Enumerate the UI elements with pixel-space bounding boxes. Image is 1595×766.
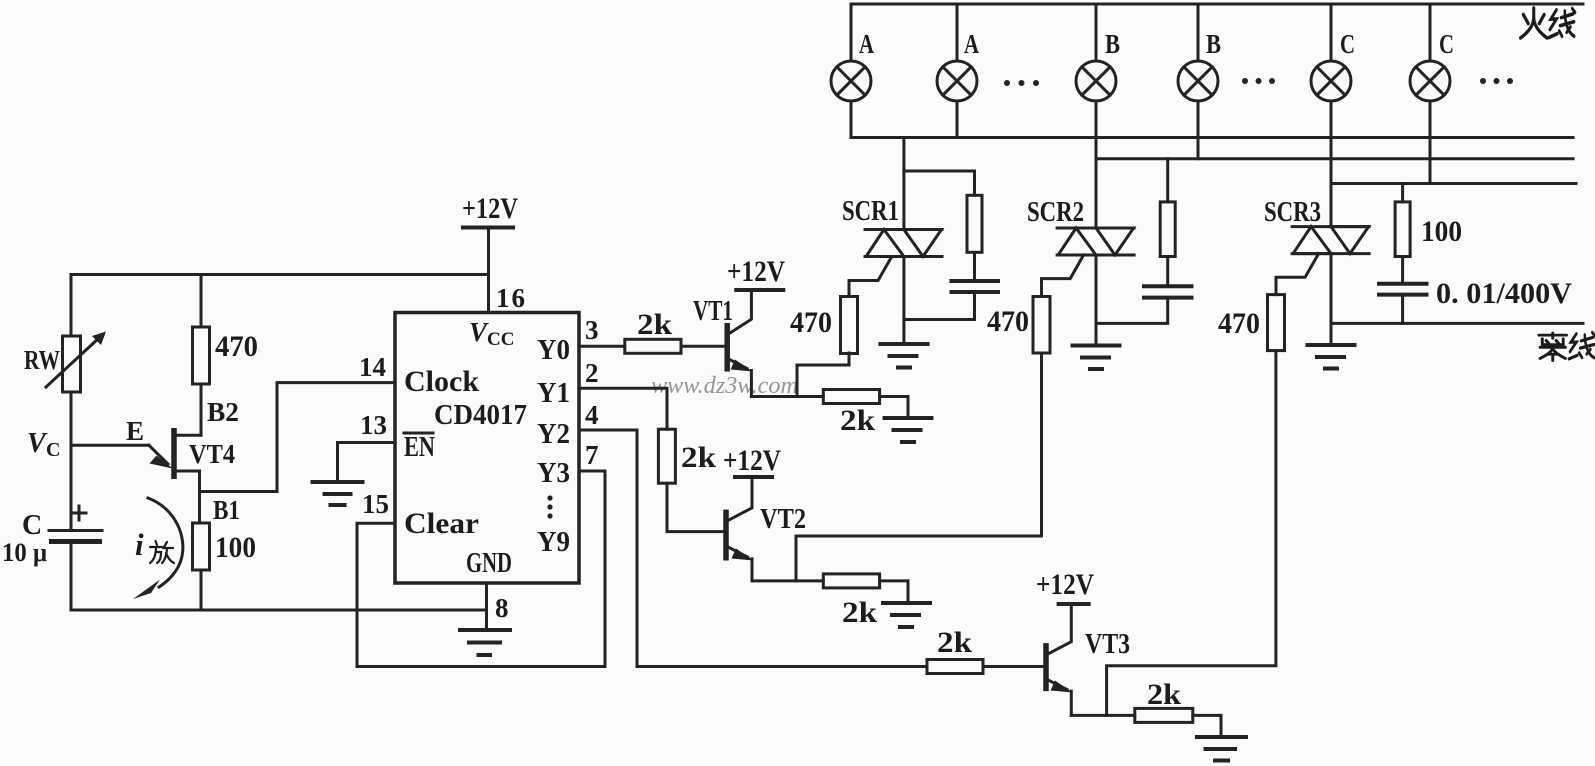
lamp B1: [1076, 4, 1116, 159]
resistor 100 (B1): [193, 523, 210, 610]
triac SCR1: [865, 230, 942, 257]
capacitor snubber1: [952, 281, 999, 292]
svg-text:2: 2: [585, 358, 599, 388]
wire neutral line: [1331, 322, 1583, 325]
svg-text:2k: 2k: [937, 626, 972, 659]
svg-text:Y9: Y9: [537, 526, 570, 558]
svg-text:GND: GND: [466, 547, 512, 579]
svg-text:Y0: Y0: [537, 334, 570, 366]
wire gate SCR3: [1276, 254, 1319, 295]
lamp C2: [1410, 4, 1450, 184]
resistor 470 (B2): [193, 275, 210, 436]
wire bus B: [1096, 157, 1573, 160]
rheostat RW: [46, 332, 106, 393]
svg-text:100: 100: [1421, 215, 1462, 248]
wire snubber2 branch: [1166, 159, 1169, 202]
ground VT3 emitter: [1197, 737, 1246, 761]
svg-text:470: 470: [987, 305, 1029, 338]
lamp A2: [937, 4, 977, 138]
svg-text:14: 14: [359, 352, 386, 382]
wire B1 node down: [198, 471, 201, 523]
wire snubber3 to neutral: [1401, 297, 1404, 324]
svg-text:SCR1: SCR1: [842, 195, 899, 227]
svg-text:V: V: [469, 317, 489, 347]
ground SCR2: [1073, 346, 1120, 370]
resistor snubber1: [967, 195, 982, 252]
power +12V VT1: [727, 255, 785, 290]
dots between Y3 and Y9: [547, 495, 552, 518]
transistor VT4 (UJT): [149, 428, 201, 479]
transistor VT1: [727, 292, 752, 397]
wire VT2 emitter: [752, 579, 823, 582]
power +12V VT3: [1036, 568, 1094, 604]
label lingxian (neutral): [1539, 333, 1595, 361]
ground VT1 emitter: [885, 418, 932, 442]
svg-text:15: 15: [362, 489, 389, 519]
ground VT2 emitter: [883, 603, 930, 627]
resistor 470 (SCR3 gate): [1268, 295, 1285, 351]
svg-text:470: 470: [790, 306, 832, 339]
svg-text:Y3: Y3: [537, 457, 570, 489]
svg-text:VT2: VT2: [760, 504, 806, 535]
svg-text:E: E: [126, 416, 144, 446]
svg-text:V: V: [27, 428, 48, 459]
svg-text:2k: 2k: [1147, 678, 1181, 711]
wire SCR3 cathode: [1330, 254, 1333, 343]
dots lamps B: [1242, 78, 1275, 84]
wire B1 tap to clock: [200, 383, 396, 492]
node VC emitter wire: [71, 444, 149, 447]
svg-text:VT1: VT1: [693, 296, 733, 327]
capacitor snubber3: [1379, 284, 1427, 295]
svg-text:B1: B1: [213, 495, 240, 525]
dots lamps C: [1480, 78, 1513, 84]
wire SCR2 anode: [1095, 159, 1098, 228]
wire bottom rail: [71, 609, 487, 612]
svg-text:Clear: Clear: [404, 507, 479, 540]
wire SCR3 anode: [1330, 184, 1333, 227]
wire pin8 GND: [485, 583, 488, 629]
wire bus C: [1331, 182, 1576, 185]
resistor 2k (VT2 emitter): [823, 574, 908, 601]
resistor snubber3 100: [1395, 202, 1410, 257]
wire: [973, 252, 976, 279]
resistor 470 (SCR2 gate): [1033, 297, 1050, 354]
svg-text:B: B: [1105, 29, 1120, 59]
svg-text:3: 3: [585, 315, 599, 345]
fang glyph: [150, 541, 174, 563]
resistor 2k (VT2 base): [658, 429, 675, 483]
svg-text:RW: RW: [24, 345, 60, 375]
transistor VT2: [726, 479, 754, 581]
svg-text:Y1: Y1: [537, 377, 570, 409]
svg-text:8: 8: [495, 593, 509, 623]
ling: [1539, 333, 1567, 361]
wire: [1401, 257, 1404, 282]
svg-text:SCR3: SCR3: [1264, 196, 1321, 228]
triac SCR2: [1057, 228, 1134, 255]
wire snubber1 to cathode: [904, 294, 975, 320]
svg-text:C: C: [22, 510, 42, 541]
svg-text:16: 16: [496, 283, 525, 313]
wire SCR1 anode: [902, 138, 905, 230]
ground SCR3: [1308, 345, 1355, 369]
dots lamps A: [1004, 80, 1039, 86]
wire snubber2 to cathode: [1096, 300, 1168, 324]
wire gate SCR2: [1042, 255, 1084, 297]
svg-text:B2: B2: [207, 397, 239, 427]
lamp B2: [1178, 4, 1218, 159]
svg-text:0. 01/400V: 0. 01/400V: [1436, 277, 1572, 310]
resistor 2k (VT3 base): [927, 660, 983, 674]
resistor 470 (SCR1 gate): [841, 297, 858, 354]
triac SCR3: [1292, 227, 1369, 254]
wire VT3 emitter: [1071, 714, 1135, 717]
wire to VT3 base: [983, 665, 1044, 668]
wire pin7 Y3 to Clear loop: [357, 471, 605, 667]
wire snubber1 branch: [904, 171, 975, 195]
xian: [1569, 333, 1595, 359]
label huoxian (live wire): [1521, 8, 1575, 38]
svg-text:13: 13: [360, 410, 387, 440]
huo: [1521, 8, 1547, 38]
svg-text:CD4017: CD4017: [434, 399, 527, 431]
svg-text:2k: 2k: [840, 404, 875, 437]
label i fang (discharge current) with arc arrow: [133, 498, 183, 599]
wire emitter node to SCR3 470: [1107, 351, 1276, 716]
wire to VT2 base: [667, 483, 724, 531]
svg-text:+12V: +12V: [462, 192, 518, 225]
ground SCR1: [881, 344, 928, 368]
svg-text:A: A: [964, 29, 979, 59]
svg-text:B: B: [1206, 29, 1221, 59]
svg-text:470: 470: [1218, 307, 1260, 340]
wire VT1 emitter: [751, 395, 823, 398]
svg-text:2k: 2k: [637, 308, 672, 341]
svg-text:C: C: [1439, 29, 1454, 59]
wire left vertical top: [70, 275, 73, 337]
wire SCR1 cathode: [902, 257, 905, 343]
svg-text:C: C: [1340, 29, 1355, 59]
wire emitter node up to 470: [797, 353, 849, 397]
svg-text:2k: 2k: [681, 441, 716, 474]
lamp C1: [1311, 4, 1351, 184]
svg-text:+12V: +12V: [1036, 568, 1094, 601]
transistor VT3: [1046, 606, 1073, 715]
svg-text:470: 470: [215, 330, 258, 363]
label EN: [404, 431, 435, 463]
power +12V VT2: [723, 444, 781, 477]
wire pin15 Clear: [357, 523, 395, 666]
svg-text:Clock: Clock: [404, 365, 479, 398]
wire pin13 EN: [338, 443, 396, 481]
xian: [1549, 9, 1575, 38]
wire Y2 pin4: [579, 430, 927, 667]
resistor snubber2: [1160, 202, 1175, 257]
svg-text:2k: 2k: [842, 596, 877, 629]
svg-text:CC: CC: [487, 329, 514, 350]
wire Y1 pin2: [579, 388, 667, 429]
resistor 2k (VT1 emitter): [823, 390, 908, 417]
wire SCR2 cathode: [1095, 255, 1098, 344]
wire snubber3 branch: [1401, 184, 1404, 202]
svg-text:100: 100: [215, 531, 256, 564]
svg-text:VT3: VT3: [1085, 629, 1130, 660]
wire Y0 pin3: [579, 345, 625, 348]
svg-text:4: 4: [585, 400, 599, 430]
capacitor snubber2: [1144, 286, 1192, 297]
svg-text:VT4: VT4: [189, 439, 235, 469]
capacitor C 10u: [49, 506, 102, 542]
power +12V (pin16): [462, 192, 518, 313]
svg-text:10 μ: 10 μ: [2, 538, 47, 567]
resistor 2k (VT3 emitter): [1135, 708, 1221, 734]
ground pin8: [460, 630, 510, 655]
svg-text:C: C: [46, 439, 60, 461]
svg-text:SCR2: SCR2: [1027, 196, 1084, 228]
svg-text:Y2: Y2: [537, 418, 570, 450]
op-amp U1 CD4017 box: [395, 313, 579, 584]
wire live rail top: [851, 3, 1583, 6]
svg-text:7: 7: [585, 440, 599, 470]
wire emitter node to SCR2 470: [796, 353, 1042, 581]
svg-text:A: A: [859, 29, 874, 59]
svg-text:+12V: +12V: [723, 444, 781, 477]
resistor 2k (VT1 base): [625, 339, 681, 353]
svg-text:i: i: [135, 527, 144, 562]
wire gate SCR1: [849, 257, 892, 297]
svg-text:EN: EN: [404, 431, 435, 463]
wire to VT1 base: [681, 345, 726, 348]
wire cap to bottom rail: [70, 542, 73, 611]
lamp A1: [831, 4, 871, 138]
ground EN: [313, 482, 363, 505]
wire top rail left: [71, 273, 489, 276]
wire RW to cap: [70, 392, 73, 529]
svg-text:+12V: +12V: [727, 255, 785, 288]
wire: [1166, 257, 1169, 285]
wire bus A: [851, 136, 1573, 139]
